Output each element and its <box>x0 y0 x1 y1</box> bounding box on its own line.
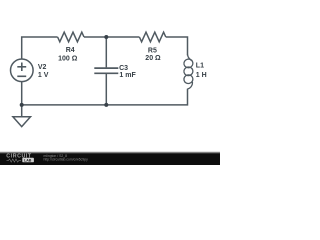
wire node A to C3 top <box>105 37 107 67</box>
svg-text:R4: R4 <box>66 47 75 54</box>
svg-text:1 V: 1 V <box>38 72 49 79</box>
wire node C to ground <box>21 105 23 117</box>
wire C3 bottom to node B <box>105 74 107 105</box>
inductor L1 <box>183 55 194 89</box>
svg-text:1 mF: 1 mF <box>119 72 136 79</box>
svg-text:100 Ω: 100 Ω <box>58 55 78 62</box>
CircuitLab logo <box>6 154 34 163</box>
capacitor C3 <box>94 68 118 73</box>
svg-text:http://circuitlab.com/c/w5c9py: http://circuitlab.com/c/w5c9py <box>44 158 89 162</box>
wire R4 right to node A <box>84 36 106 38</box>
resistor R4 <box>58 32 84 42</box>
svg-text:V2: V2 <box>38 64 47 71</box>
svg-text:20 Ω: 20 Ω <box>145 55 161 62</box>
wire L1 bottom to node B <box>106 89 187 105</box>
watermark text <box>44 154 89 162</box>
wire R5 right to L1 top <box>166 37 188 55</box>
svg-text:1 H: 1 H <box>196 72 207 79</box>
svg-text:LAB: LAB <box>24 158 32 162</box>
resistor R5 <box>139 32 165 42</box>
node C junction dot <box>20 103 24 107</box>
voltage source V2 <box>10 59 33 82</box>
wire node B to node C <box>22 104 107 106</box>
node A junction dot <box>104 35 108 39</box>
wire V2 bottom to node C <box>21 82 23 105</box>
node B junction dot <box>104 103 108 107</box>
svg-text:R5: R5 <box>148 47 157 54</box>
wire V2 top to R4 left <box>22 37 58 59</box>
svg-text:L1: L1 <box>196 63 204 70</box>
ground <box>13 117 31 127</box>
watermark bar <box>0 150 220 165</box>
wire node A to R5 left <box>106 36 139 38</box>
